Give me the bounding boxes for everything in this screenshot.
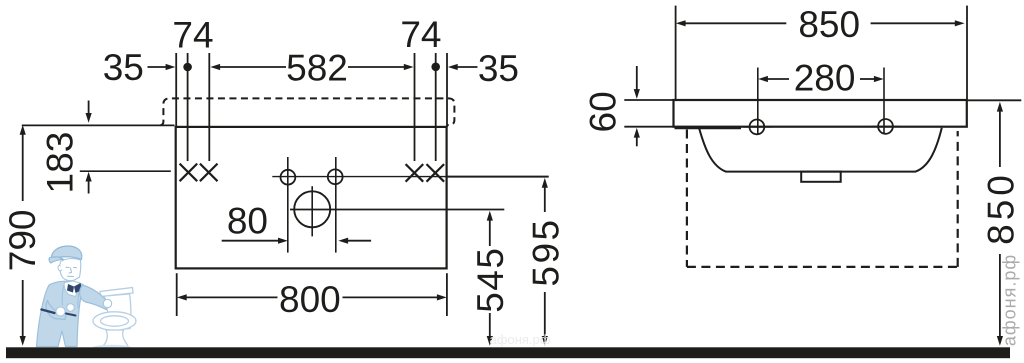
svg-text:60: 60 <box>582 91 623 132</box>
svg-text:280: 280 <box>794 57 856 98</box>
long reference line faucet level <box>290 209 504 211</box>
watermark toilet <box>93 288 136 348</box>
svg-text:850: 850 <box>980 171 1021 245</box>
bowl profile <box>699 128 942 172</box>
extension line cabinet left edge up <box>175 53 177 127</box>
svg-text:74: 74 <box>400 14 441 55</box>
fixing hole X mark 4 <box>427 164 445 182</box>
dimension 183: bottom line and arrow <box>80 170 171 172</box>
watermark mascot plumber figure <box>37 246 112 347</box>
extension lines 60 dimension <box>624 99 673 101</box>
dimension 595 vertical <box>544 187 546 212</box>
svg-text:афоня.рф: афоня.рф <box>490 332 551 347</box>
svg-text:800: 800 <box>279 279 341 320</box>
dot marker right 74 <box>431 63 440 72</box>
dimension 850 top <box>675 6 677 99</box>
svg-text:545: 545 <box>470 247 511 313</box>
dashed vanity outline side <box>687 130 958 267</box>
main faucet hole large circle <box>294 191 330 227</box>
svg-text:35: 35 <box>103 47 144 88</box>
fixing hole X mark 3 <box>406 164 424 182</box>
fixing hole X mark 1 <box>180 164 198 182</box>
extension line cabinet right edge up <box>446 53 448 127</box>
svg-text:35: 35 <box>478 48 519 89</box>
dimension 790 vertical line <box>22 134 24 201</box>
svg-text:афоня.рф: афоня.рф <box>1000 254 1020 346</box>
svg-text:850: 850 <box>798 4 860 45</box>
dimension 800 <box>176 273 178 316</box>
floor line (ground) <box>6 347 1010 358</box>
svg-text:790: 790 <box>2 210 43 272</box>
drain outlet <box>801 172 841 182</box>
faucet hole small circle 1 <box>287 157 289 253</box>
svg-text:183: 183 <box>39 132 80 194</box>
washbasin outline dashed (850 wide) <box>161 98 455 125</box>
dimension 183: top arrow <box>88 101 90 114</box>
dimension 280 <box>757 68 759 135</box>
cabinet front outline (800x capacity) <box>176 127 447 269</box>
svg-text:595: 595 <box>525 217 566 286</box>
long reference line holes level <box>272 176 446 178</box>
label 35 right with arrow <box>458 66 478 68</box>
extension line hole 1 <box>187 53 189 161</box>
deck underside thick segment <box>675 126 742 129</box>
dimension 60 arrows <box>636 66 638 90</box>
faucet hole circle side 1 <box>750 120 765 135</box>
dot marker left 74 <box>183 63 192 72</box>
top reference line to 790 dimension <box>22 124 175 126</box>
dimension 545 vertical <box>489 220 491 246</box>
svg-text:74: 74 <box>172 15 213 56</box>
dimension 582 <box>220 66 286 68</box>
extension line hole 2 <box>208 53 210 161</box>
faucet hole small circle 2 <box>335 157 337 253</box>
fixing hole X mark 2 <box>200 164 218 182</box>
arrow 35 left <box>148 66 167 68</box>
dimension 850 right vertical <box>967 99 1021 101</box>
svg-text:582: 582 <box>286 48 348 89</box>
watermark shadow <box>93 345 131 351</box>
basin deck side profile <box>674 100 967 127</box>
extension line hole 3 <box>414 53 416 161</box>
faucet hole circle side 2 <box>878 119 893 134</box>
svg-text:80: 80 <box>227 201 268 242</box>
extension line hole 4 <box>435 53 437 161</box>
